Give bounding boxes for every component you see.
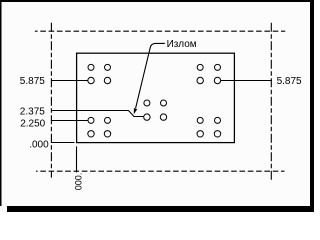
svg-text:2.375: 2.375 — [20, 107, 45, 118]
callout leader to jog — [136, 43, 165, 108]
frame left band — [0, 0, 2, 206]
datum dashed line horizontal bottom — [36, 170, 285, 172]
hole circle BL-a — [88, 117, 94, 123]
plate outline rectangle — [77, 53, 235, 142]
hole circle BR-d — [214, 131, 220, 137]
hole circle TL-b — [105, 64, 111, 70]
datum centerline vertical right — [270, 23, 272, 181]
callout arrowhead — [134, 108, 137, 114]
svg-text:5.875: 5.875 — [277, 76, 302, 87]
ordinate leader .000 bottom vertical — [76, 146, 78, 172]
hole circle BR-c — [197, 131, 203, 137]
hole circle BL-c — [88, 131, 94, 137]
hole circle M-d — [160, 114, 166, 120]
hole circle BR-a — [197, 117, 203, 123]
hole circle BR-b — [215, 117, 221, 123]
hole circle TR-c — [197, 77, 203, 83]
hole circle TR-d — [214, 77, 220, 83]
ordinate leader 2.375 with jog — [51, 111, 144, 117]
datum dashed line horizontal top — [35, 30, 285, 32]
svg-text:5.875: 5.875 — [20, 76, 45, 87]
hole circle BL-d — [104, 131, 110, 137]
datum centerline vertical left — [50, 23, 52, 178]
ordinate leader 5.875 left — [51, 80, 88, 82]
hole circle TL-c — [88, 77, 94, 83]
hole circle TR-b — [215, 64, 221, 70]
hole circle TL-d — [104, 77, 110, 83]
hole circle M-a — [144, 100, 150, 106]
hole circle M-c — [144, 114, 150, 120]
hole circle TL-a — [88, 64, 94, 70]
svg-text:Излом: Излом — [167, 39, 197, 50]
frame top band — [0, 0, 314, 2]
ordinate leader 2.250 left — [51, 120, 88, 122]
frame bottom band — [7, 206, 314, 212]
svg-text:2.250: 2.250 — [20, 119, 45, 130]
hole circle BL-b — [105, 117, 111, 123]
hole circle TR-a — [197, 64, 203, 70]
svg-text:.000: .000 — [29, 139, 49, 150]
ordinate leader .000 left — [51, 142, 75, 144]
frame right band — [310, 1, 314, 212]
hole circle M-b — [161, 100, 167, 106]
ordinate leader 5.875 right — [221, 80, 272, 82]
svg-text:000.: 000. — [73, 173, 83, 191]
